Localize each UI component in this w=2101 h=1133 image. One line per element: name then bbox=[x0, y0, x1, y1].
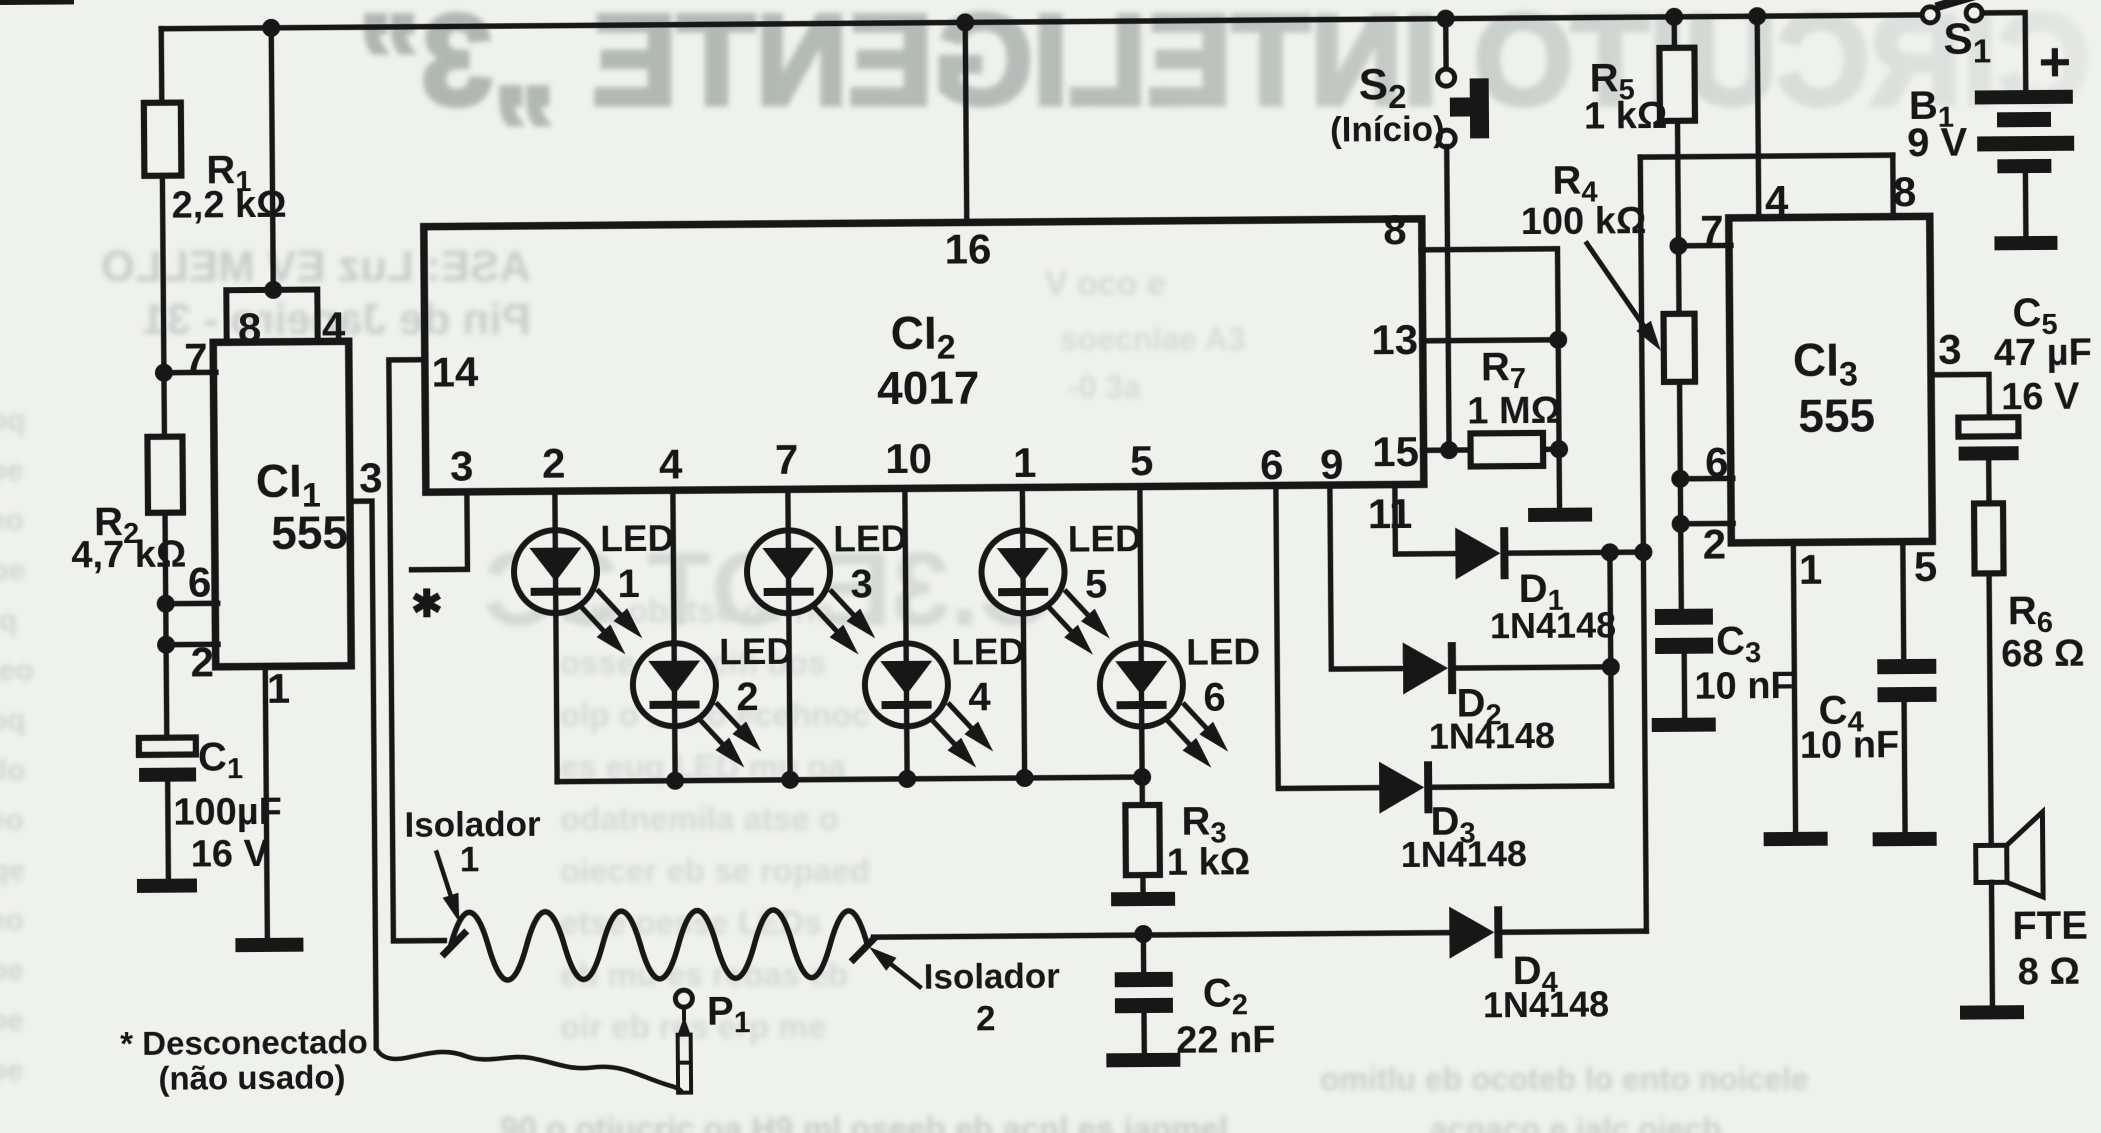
label LED number 6 bbox=[1203, 675, 1226, 719]
svg-text:aeo: aeo bbox=[0, 904, 24, 937]
svg-text:3: 3 bbox=[450, 442, 474, 489]
wire riser D2-D1 bbox=[1607, 552, 1613, 666]
label R2 bbox=[94, 500, 139, 550]
capacitor C1 electrolytic bbox=[139, 737, 196, 781]
label C4 bbox=[1818, 688, 1863, 738]
black margin mark top-left bbox=[0, 0, 74, 5]
wire top supply rail bbox=[161, 15, 1922, 29]
wire CI2 output column to LED 3 bbox=[788, 491, 790, 780]
svg-text:6: 6 bbox=[1705, 438, 1729, 485]
svg-text:3: 3 bbox=[359, 454, 383, 501]
switch S1 right contact bbox=[1966, 5, 1982, 21]
wire isolator2 to D4 row bbox=[873, 933, 1451, 938]
pin label 16 of CI2 bbox=[944, 225, 991, 272]
ground below C2 bbox=[1106, 1053, 1180, 1068]
label D1 bbox=[1519, 567, 1564, 617]
svg-text:555: 555 bbox=[1798, 389, 1875, 442]
label C3 value 10 nF bbox=[1694, 665, 1794, 708]
wire C3 to ground bbox=[1682, 656, 1688, 720]
wire C4 to ground bbox=[1904, 701, 1905, 834]
svg-text:6: 6 bbox=[188, 558, 212, 605]
wire CI2 pin13 stub bbox=[1422, 340, 1558, 341]
wire LED cathode bus bbox=[557, 777, 1142, 782]
probe P1 cone bbox=[678, 1017, 691, 1035]
node junction pin6 bbox=[157, 595, 175, 613]
pin label 10 of CI2 bbox=[885, 435, 932, 482]
wire R6 to speaker bbox=[1989, 573, 1991, 847]
wire left vertical R2-C1 bbox=[165, 513, 167, 740]
svg-text:2: 2 bbox=[1702, 520, 1726, 567]
label R4 bbox=[1552, 158, 1597, 208]
node junction wire-C2 bbox=[1134, 925, 1152, 943]
label R7 value 1 MOhm bbox=[1467, 390, 1561, 433]
node junction pin6 CI3 bbox=[1671, 470, 1689, 488]
isolator 1 slash bbox=[444, 933, 464, 953]
pin label 6 of CI2 bbox=[1260, 441, 1284, 488]
label LED number 4 bbox=[968, 675, 991, 719]
label Isolador 1 number bbox=[460, 840, 480, 879]
svg-text:1N4148: 1N4148 bbox=[1401, 833, 1527, 875]
svg-text:soecnlae A3: soecnlae A3 bbox=[1060, 321, 1246, 357]
diode D4 bbox=[1449, 906, 1502, 958]
wire diode common riser bbox=[1640, 157, 1646, 931]
wire R1 top stub bbox=[159, 29, 165, 105]
node junction S2-pin15 bbox=[1440, 441, 1458, 459]
label C1 bbox=[198, 735, 243, 785]
pin label 1 of CI1 bbox=[267, 665, 291, 712]
label C5 value 47 uF bbox=[1994, 332, 2092, 375]
wire CI3 pin6 stub bbox=[1680, 476, 1732, 482]
label desconectado note bbox=[120, 1023, 368, 1062]
wire pin13 riser down bbox=[1558, 340, 1559, 510]
svg-text:8: 8 bbox=[238, 304, 262, 351]
svg-text:13: 13 bbox=[1371, 316, 1418, 363]
svg-text:oiecer eb se ropaed: oiecer eb se ropaed bbox=[560, 852, 870, 889]
resistor R7 bbox=[1470, 433, 1543, 467]
node junction on LED bus bbox=[898, 770, 916, 788]
label P1 bbox=[707, 989, 751, 1039]
switch S2 bottom contact bbox=[1438, 130, 1455, 147]
svg-text:soq: soq bbox=[0, 704, 25, 737]
label S1 bbox=[1943, 14, 1991, 69]
label LED number 1 bbox=[617, 562, 640, 606]
resistor R2 bbox=[147, 437, 183, 513]
svg-text:LED: LED bbox=[833, 518, 907, 560]
svg-text:22 nF: 22 nF bbox=[1176, 1019, 1276, 1062]
diode D2 bbox=[1403, 642, 1456, 694]
ic CI3 555 box bbox=[1729, 216, 1933, 543]
led LED2 bbox=[633, 643, 762, 769]
svg-text:(Início): (Início) bbox=[1330, 110, 1445, 150]
wire C5 to R6 bbox=[1986, 460, 1992, 505]
label C4 value 10 nF bbox=[1800, 724, 1900, 767]
label asterisk near pin3 bbox=[411, 584, 443, 626]
svg-text:eoe: eoe bbox=[0, 1054, 24, 1087]
svg-text:4,7 kΩ: 4,7 kΩ bbox=[71, 534, 186, 577]
label B1 bbox=[1909, 84, 1954, 134]
node junction pin2 bbox=[157, 636, 175, 654]
wire S1 to battery bbox=[1982, 13, 2026, 93]
label D3 bbox=[1430, 799, 1475, 849]
pin label 2 of CI2 bbox=[542, 440, 566, 487]
node junction on bracket bbox=[264, 281, 282, 299]
label D2 bbox=[1456, 681, 1501, 731]
label CI3 555 bbox=[1798, 389, 1875, 442]
wire S2 to pin15 row bbox=[1447, 147, 1449, 450]
probe P1 barrel band bbox=[678, 1061, 691, 1065]
pin label 3 of CI2 bbox=[450, 442, 474, 489]
node junction R7 right bbox=[1550, 440, 1568, 458]
wire CI1 pin3 stub bbox=[350, 501, 376, 1048]
svg-text:1: 1 bbox=[1013, 439, 1037, 486]
wire C1 to ground bbox=[165, 782, 171, 881]
label R6 bbox=[2008, 589, 2053, 639]
label nao usado note bbox=[158, 1058, 345, 1096]
svg-text:1N4148: 1N4148 bbox=[1483, 983, 1609, 1025]
switch S1 lever bbox=[1940, 0, 2000, 6]
svg-text:obe: obe bbox=[0, 554, 25, 587]
svg-text:soe: soe bbox=[0, 1004, 24, 1037]
led LED4 bbox=[865, 643, 994, 769]
svg-text:8 Ω: 8 Ω bbox=[2018, 951, 2080, 993]
wire D1 to node bbox=[1507, 552, 1643, 553]
svg-text:16: 16 bbox=[944, 225, 991, 272]
pin label 8 of CI3 bbox=[1893, 168, 1917, 215]
wire CI1 pin1 to ground bbox=[265, 666, 267, 940]
svg-text:9: 9 bbox=[1320, 440, 1344, 487]
probe P1 barrel bbox=[678, 1035, 691, 1093]
battery B1 bbox=[1975, 90, 2075, 174]
label S2 Inicio bbox=[1330, 110, 1445, 150]
pin label 4 of CI1 bbox=[322, 303, 346, 350]
svg-text:acnaco e ialc oiecb: acnaco e ialc oiecb bbox=[1430, 1111, 1722, 1133]
wire CI2 output column to LED 2 bbox=[673, 492, 675, 781]
ground below battery bbox=[1994, 236, 2057, 250]
node junction on LED bus bbox=[1016, 769, 1034, 787]
wire CI2 pin14 stub bbox=[389, 360, 445, 941]
svg-text:odatnemila atse o: odatnemila atse o bbox=[560, 800, 839, 837]
label R5 value 1 kOhm bbox=[1584, 95, 1668, 138]
resistor R6 bbox=[1974, 503, 2004, 573]
svg-text:8: 8 bbox=[1893, 168, 1917, 215]
node junction pin7 bbox=[155, 364, 173, 382]
label D1 value 1N4148 bbox=[1490, 604, 1616, 646]
svg-text:LED: LED bbox=[1068, 518, 1142, 560]
pin label 13 of CI2 bbox=[1371, 316, 1418, 363]
svg-text:1N4148: 1N4148 bbox=[1429, 715, 1555, 757]
wire CI2 pin3 stub disconnected bbox=[411, 493, 468, 569]
label D2 value 1N4148 bbox=[1429, 715, 1555, 757]
resistor R1 bbox=[144, 103, 182, 176]
wire C2 to ground bbox=[1141, 1011, 1147, 1055]
wire battery to ground bbox=[2023, 173, 2029, 238]
svg-text:7: 7 bbox=[184, 334, 208, 381]
capacitor C3 bbox=[1655, 609, 1713, 654]
node junction D1-riser bbox=[1601, 543, 1619, 561]
label C1 value 16V bbox=[191, 833, 270, 876]
node junction D2 riser bbox=[1602, 658, 1620, 676]
wire rail to R5 bbox=[1671, 17, 1677, 50]
svg-text:16 V: 16 V bbox=[191, 833, 270, 876]
svg-text:LED: LED bbox=[600, 518, 674, 560]
pin label 9 of CI2 bbox=[1320, 440, 1344, 487]
svg-text:1 kΩ: 1 kΩ bbox=[1167, 841, 1251, 884]
svg-text:1 kΩ: 1 kΩ bbox=[1584, 95, 1668, 138]
led LED3 bbox=[747, 530, 876, 656]
svg-text:-0 3a: -0 3a bbox=[1068, 369, 1141, 405]
node junction rail-CI3 bbox=[1748, 7, 1766, 25]
pin label 6 of CI3 bbox=[1705, 438, 1729, 485]
wire CI3 pin2 stub bbox=[1681, 521, 1733, 527]
pin label 7 of CI2 bbox=[775, 436, 799, 483]
pin label 5 of CI3 bbox=[1914, 543, 1938, 590]
label CI2 bbox=[890, 307, 955, 368]
wire CI3 pin1 to ground bbox=[1793, 543, 1795, 834]
pin label 2 of CI3 bbox=[1702, 520, 1726, 567]
svg-text:68 Ω: 68 Ω bbox=[2001, 633, 2085, 676]
wire left vertical R1-R2 bbox=[162, 176, 164, 439]
wire R4 to pin6 node bbox=[1677, 382, 1683, 481]
node junction on LED bus bbox=[781, 771, 799, 789]
arrow pointer to R4 bbox=[1587, 243, 1661, 351]
svg-text:5: 5 bbox=[1914, 543, 1938, 590]
svg-text:47 µF: 47 µF bbox=[1994, 332, 2092, 375]
svg-text:11: 11 bbox=[1368, 490, 1413, 537]
label Isolador 2 number bbox=[976, 999, 996, 1038]
pin label 8 of CI1 bbox=[238, 304, 262, 351]
wire CI1 pin6 stub bbox=[166, 601, 218, 607]
label CI1 555 bbox=[271, 506, 348, 559]
wire CI2 pin8 stub bbox=[1421, 249, 1558, 341]
svg-text:LED: LED bbox=[1186, 631, 1260, 673]
wire CI2 output column to LED 1 bbox=[555, 493, 557, 782]
ground below C4 bbox=[1873, 832, 1937, 847]
wire bus to R3 bbox=[1139, 777, 1145, 807]
isolator 2 slash bbox=[853, 939, 873, 959]
svg-text:omitlu eb ocoteb lo ento noice: omitlu eb ocoteb lo ento noicele bbox=[1320, 1061, 1809, 1097]
svg-text:ebe: ebe bbox=[0, 954, 24, 987]
label CI2 4017 bbox=[877, 361, 980, 414]
ground below C3 bbox=[1652, 718, 1716, 733]
svg-text:2: 2 bbox=[542, 440, 566, 487]
wire CI2 pin11 to D1 bbox=[1395, 486, 1458, 554]
svg-text:7: 7 bbox=[775, 436, 799, 483]
svg-text:(não usado): (não usado) bbox=[158, 1058, 345, 1096]
wire pin7 node to R4 bbox=[1676, 246, 1682, 316]
ground below CI1 pin1 bbox=[235, 938, 303, 953]
wire R3 to ground bbox=[1140, 875, 1146, 894]
node junction bus-R3 bbox=[1133, 768, 1151, 786]
pin label 5 of CI2 bbox=[1130, 437, 1154, 484]
wire CI2 output column to LED 6 bbox=[1140, 488, 1142, 777]
arrow to isolator 1 bbox=[437, 852, 460, 922]
svg-text:5: 5 bbox=[1085, 562, 1108, 606]
svg-text:2: 2 bbox=[736, 675, 759, 719]
svg-text:10 nF: 10 nF bbox=[1694, 665, 1794, 708]
label LED text 1 bbox=[600, 518, 674, 560]
speaker FTE bbox=[1975, 812, 2043, 898]
label LED text 4 bbox=[951, 631, 1025, 673]
pin label 8 of CI2 bbox=[1383, 206, 1407, 253]
diode D3 bbox=[1379, 761, 1432, 813]
label D4 value 1N4148 bbox=[1483, 983, 1609, 1025]
svg-text:Isolador: Isolador bbox=[924, 957, 1061, 997]
pin label 14 of CI2 bbox=[431, 348, 479, 395]
label R4 value 100 kOhm bbox=[1521, 200, 1647, 243]
svg-text:oqe: oqe bbox=[0, 854, 25, 887]
label Isolador 2 bbox=[924, 957, 1061, 997]
led LED6 bbox=[1100, 643, 1229, 769]
label C1 value 100uF bbox=[173, 791, 282, 834]
wire riser D3-D2 bbox=[1608, 667, 1614, 786]
label LED text 6 bbox=[1186, 631, 1260, 673]
wire CI2 output column to LED 5 bbox=[1022, 489, 1024, 778]
svg-text:4: 4 bbox=[1765, 177, 1789, 224]
pin label 3 of CI1 bbox=[359, 454, 383, 501]
svg-text:2,2 kΩ: 2,2 kΩ bbox=[171, 184, 286, 227]
svg-text:4: 4 bbox=[968, 675, 991, 719]
svg-text:14: 14 bbox=[431, 348, 479, 395]
label FTE bbox=[2012, 904, 2088, 949]
inductor coil pickup bbox=[450, 909, 868, 980]
svg-text:8: 8 bbox=[1383, 206, 1407, 253]
pin label 11 of CI2 bbox=[1368, 490, 1413, 537]
svg-text:2: 2 bbox=[976, 999, 996, 1038]
label R3 value 1 kOhm bbox=[1167, 841, 1251, 884]
label LED text 2 bbox=[719, 631, 793, 673]
svg-text:1N4148: 1N4148 bbox=[1490, 604, 1616, 646]
svg-text:seo: seo bbox=[0, 804, 24, 837]
label CI1 bbox=[256, 454, 321, 515]
wire bracket to pin8 bbox=[1890, 155, 1896, 215]
label D4 bbox=[1513, 949, 1558, 999]
svg-text:ioq: ioq bbox=[0, 604, 17, 637]
node junction rail-pin16 bbox=[956, 13, 974, 31]
svg-text:4: 4 bbox=[659, 441, 683, 488]
svg-text:16 V: 16 V bbox=[2001, 376, 2080, 419]
svg-text:eoq: eoq bbox=[0, 404, 25, 437]
svg-text:6: 6 bbox=[1203, 675, 1226, 719]
label CI3 bbox=[1793, 333, 1858, 394]
pin label 1 of CI3 bbox=[1799, 546, 1823, 593]
svg-text:9 V: 9 V bbox=[1907, 121, 1968, 165]
wire R5 to pin7 node bbox=[1675, 121, 1681, 248]
svg-text:V oco e: V oco e bbox=[1045, 265, 1166, 303]
label C5 value 16 V bbox=[2001, 376, 2080, 419]
probe P1 tip ring bbox=[675, 990, 692, 1007]
label C2 value 22 nF bbox=[1176, 1019, 1276, 1062]
svg-text:+: + bbox=[2038, 30, 2071, 93]
label R2 value 4,7 k&#937; bbox=[71, 534, 186, 577]
wire D3 to riser bbox=[1432, 786, 1611, 787]
wire rail to S2 bbox=[1443, 19, 1449, 70]
label battery plus bbox=[2038, 30, 2071, 93]
svg-text:1: 1 bbox=[460, 840, 480, 879]
label R3 bbox=[1181, 799, 1226, 849]
svg-text:7: 7 bbox=[1700, 206, 1724, 253]
pin label 4 of CI3 bbox=[1765, 177, 1789, 224]
ground below C1 bbox=[137, 878, 197, 892]
pin label 6 of CI1 bbox=[188, 558, 212, 605]
svg-text:5: 5 bbox=[1130, 437, 1154, 484]
label C2 bbox=[1203, 971, 1248, 1021]
label Isolador 1 bbox=[404, 805, 541, 845]
wire CI3 pin7 stub bbox=[1678, 243, 1730, 249]
wire CI2 pin9 to D2 bbox=[1330, 486, 1405, 669]
svg-text:10: 10 bbox=[885, 435, 932, 482]
ground below speaker bbox=[1960, 1005, 2024, 1020]
svg-text:✱: ✱ bbox=[411, 584, 443, 626]
pin label 3 of CI3 bbox=[1938, 326, 1962, 373]
wire R7 to riser junction bbox=[1543, 447, 1559, 453]
wire CI2 output column to LED 4 bbox=[905, 490, 907, 779]
label LED text 3 bbox=[833, 518, 907, 560]
label B1 value 9V bbox=[1907, 121, 1968, 165]
wire CI1 pin2 stub bbox=[166, 642, 218, 648]
svg-text:seo: seo bbox=[0, 504, 24, 537]
wire junction to C2 bbox=[1141, 934, 1147, 974]
svg-text:* Desconectado: * Desconectado bbox=[120, 1023, 368, 1062]
node junction rail-CI1 bbox=[262, 19, 280, 37]
svg-text:4017: 4017 bbox=[877, 361, 980, 414]
wire rail to CI3 pin4 bbox=[1757, 16, 1759, 218]
label LED text 5 bbox=[1068, 518, 1142, 560]
svg-text:555: 555 bbox=[271, 506, 348, 559]
switch S1 left contact bbox=[1922, 7, 1938, 23]
capacitor C5 electrolytic bbox=[1958, 417, 2018, 460]
node junction pin7 CI3 bbox=[1669, 237, 1687, 255]
ground below R7 riser bbox=[1528, 508, 1592, 523]
svg-text:edo: edo bbox=[0, 754, 25, 787]
wire rail to CI2 pin16 bbox=[965, 22, 967, 222]
wire CI3 4-8 bracket bbox=[1640, 155, 1892, 157]
svg-text:FTE: FTE bbox=[2012, 904, 2088, 949]
wire speaker to ground bbox=[1989, 882, 1995, 1007]
label C5 bbox=[2012, 291, 2057, 341]
svg-text:Isolador: Isolador bbox=[404, 805, 541, 845]
op-amp U1 timer CI1 555 box bbox=[213, 341, 351, 667]
svg-text:LED: LED bbox=[719, 631, 793, 673]
wire CI3 pin3 stub bbox=[1931, 374, 1989, 419]
label C3 bbox=[1716, 619, 1761, 669]
label LED number 3 bbox=[850, 562, 873, 606]
probe P1 stem bbox=[682, 1007, 686, 1019]
wire CI1 pin7 stub bbox=[164, 370, 216, 376]
resistor R3 bbox=[1125, 805, 1160, 875]
label S2 bbox=[1359, 60, 1407, 115]
capacitor C2 bbox=[1115, 972, 1173, 1013]
pin label 4 of CI2 bbox=[659, 441, 683, 488]
node junction pin13-pin8 bbox=[1549, 331, 1567, 349]
svg-text:10 nF: 10 nF bbox=[1800, 724, 1900, 767]
switch S2 plunger bbox=[1450, 78, 1489, 138]
label R5 bbox=[1589, 56, 1634, 106]
svg-text:15: 15 bbox=[1372, 428, 1419, 475]
svg-text:3: 3 bbox=[1938, 326, 1962, 373]
label LED number 2 bbox=[736, 675, 759, 719]
pin label 7 of CI1 bbox=[184, 334, 208, 381]
wire D2 to riser bbox=[1455, 667, 1610, 668]
wire rail to CI1 bracket bbox=[271, 28, 273, 292]
svg-text:3: 3 bbox=[850, 562, 873, 606]
label D3 value 1N4148 bbox=[1401, 833, 1527, 875]
pin label 1 of CI2 bbox=[1013, 439, 1037, 486]
led LED5 bbox=[981, 530, 1110, 656]
ground below CI3 pin1 bbox=[1764, 832, 1828, 847]
wire CI1 pins 8-4 bracket bbox=[226, 290, 317, 343]
capacitor C4 bbox=[1877, 659, 1936, 702]
resistor R5 bbox=[1659, 48, 1695, 121]
